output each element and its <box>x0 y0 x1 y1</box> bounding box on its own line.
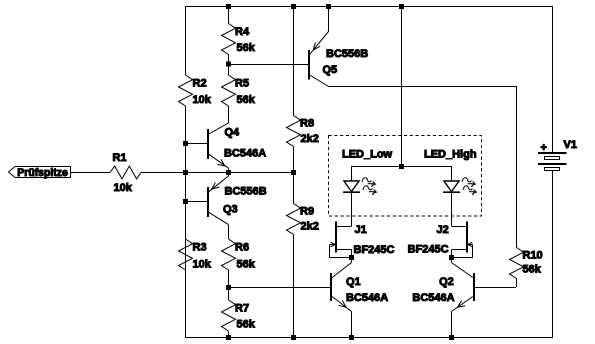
svg-text:56k: 56k <box>523 263 542 275</box>
resistor R4 <box>222 6 256 64</box>
wire LED anode rail <box>351 166 451 168</box>
resistor R10 <box>510 248 543 288</box>
svg-text:56k: 56k <box>237 259 256 271</box>
svg-text:LED_Low: LED_Low <box>342 149 393 161</box>
resistor R9 <box>287 172 319 235</box>
svg-text:R9: R9 <box>300 205 314 217</box>
junction <box>183 141 188 146</box>
svg-text:R6: R6 <box>235 242 249 254</box>
wire R8 top lead <box>293 6 295 116</box>
junction <box>226 335 231 340</box>
svg-text:R10: R10 <box>523 250 543 262</box>
wire probe to R1 <box>70 172 110 174</box>
net flag Prüfspitze <box>9 167 71 180</box>
resistor R7 <box>222 287 256 337</box>
svg-text:BF245C: BF245C <box>408 243 449 255</box>
transistor Q2 <box>412 258 474 338</box>
battery V1 <box>538 139 577 171</box>
junction <box>226 62 231 67</box>
wire Q3 base <box>185 201 207 203</box>
resistor R8 <box>287 116 319 173</box>
svg-text:Q3: Q3 <box>223 203 238 215</box>
wire R9 to ground rail <box>293 235 295 338</box>
wire Q5 collector to R10 <box>329 87 517 248</box>
svg-text:BC546A: BC546A <box>346 292 388 304</box>
svg-text:BC556B: BC556B <box>225 185 267 197</box>
svg-text:V1: V1 <box>564 139 577 151</box>
svg-text:Q2: Q2 <box>439 276 454 288</box>
wire top rail <box>185 6 553 8</box>
resistor R1 <box>110 152 141 194</box>
transistor Q5 <box>309 32 368 87</box>
junction <box>291 335 296 340</box>
resistor R2 <box>179 75 212 106</box>
wire R1 to node <box>141 172 293 174</box>
transistor Q3 <box>208 172 267 239</box>
svg-text:10k: 10k <box>193 259 212 271</box>
LED LED_High <box>424 149 477 227</box>
wire bottom rail <box>185 337 553 339</box>
svg-text:R5: R5 <box>235 78 249 90</box>
svg-text:BF245C: BF245C <box>354 244 395 256</box>
wire battery positive <box>552 6 554 152</box>
dashed group box <box>329 136 482 217</box>
JFET J2 <box>408 222 473 259</box>
wire Q2 base <box>475 287 516 289</box>
wire Q4 base <box>185 143 207 145</box>
svg-text:10k: 10k <box>114 182 133 194</box>
svg-text:Q4: Q4 <box>225 127 241 139</box>
junction <box>399 4 404 9</box>
junction <box>226 170 231 175</box>
svg-text:10k: 10k <box>193 94 212 106</box>
svg-text:J1: J1 <box>355 224 367 236</box>
LED LED_Low <box>342 149 393 227</box>
svg-text:R4: R4 <box>235 26 250 38</box>
wire left rail lower <box>185 106 187 338</box>
junction <box>449 335 454 340</box>
wire LED feed <box>401 6 403 166</box>
junction <box>449 255 454 260</box>
junction <box>291 170 296 175</box>
junction <box>349 335 354 340</box>
svg-text:BC556B: BC556B <box>326 48 368 60</box>
junction <box>399 164 404 169</box>
svg-text:R2: R2 <box>193 78 207 90</box>
wire battery negative <box>552 171 554 337</box>
wire Q5 base <box>228 64 308 66</box>
resistor R6 <box>222 239 256 287</box>
svg-text:BC546A: BC546A <box>412 292 454 304</box>
junction <box>226 4 231 9</box>
junction <box>226 285 231 290</box>
junction <box>349 255 354 260</box>
junction <box>291 4 296 9</box>
svg-text:56k: 56k <box>237 319 256 331</box>
svg-text:+: + <box>541 142 547 154</box>
svg-text:R1: R1 <box>113 152 127 164</box>
wire Q1 base <box>228 287 330 289</box>
svg-text:LED_High: LED_High <box>424 149 477 161</box>
svg-text:Q1: Q1 <box>346 276 361 288</box>
svg-text:Prüfspitze: Prüfspitze <box>17 167 68 179</box>
transistor Q1 <box>331 258 388 338</box>
junction <box>326 4 331 9</box>
svg-text:R7: R7 <box>235 303 249 315</box>
junction <box>183 199 188 204</box>
resistor R5 <box>222 64 256 124</box>
wire left rail upper <box>185 6 187 75</box>
svg-text:R8: R8 <box>300 117 314 129</box>
transistor Q4 <box>208 123 266 172</box>
svg-text:Q5: Q5 <box>323 64 338 76</box>
svg-text:J2: J2 <box>437 224 449 236</box>
resistor R3 <box>179 239 212 271</box>
svg-text:R3: R3 <box>193 242 207 254</box>
svg-text:BC546A: BC546A <box>224 148 266 160</box>
svg-text:56k: 56k <box>237 42 256 54</box>
wire Q5 emitter <box>328 6 330 32</box>
svg-text:56k: 56k <box>237 94 256 106</box>
svg-text:2k2: 2k2 <box>301 133 319 145</box>
JFET J1 <box>330 222 395 259</box>
svg-text:2k2: 2k2 <box>301 220 319 232</box>
junction <box>183 170 188 175</box>
